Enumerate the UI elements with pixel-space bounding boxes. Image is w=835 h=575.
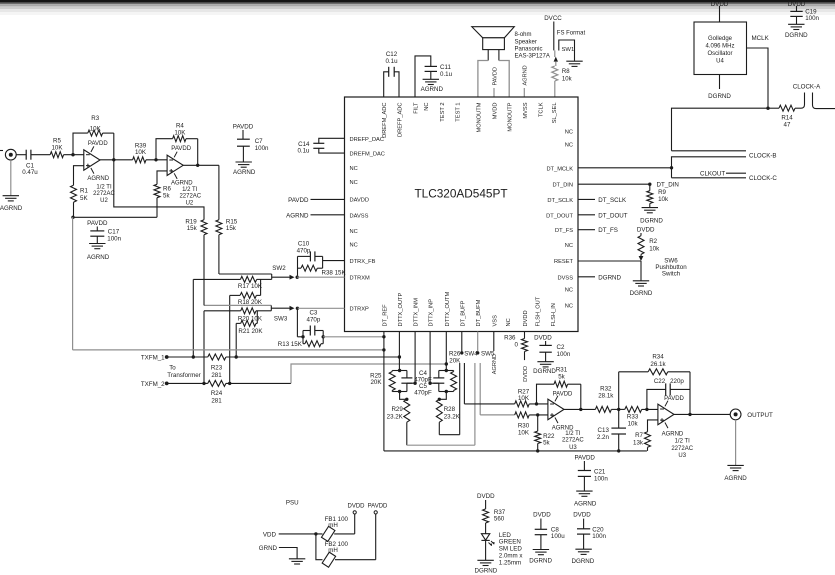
resistor R8 — [552, 66, 558, 81]
power label DVDD (oscillator, clipped by top bar) — [711, 1, 729, 8]
svg-text:U4: U4 — [716, 59, 724, 65]
wire reference line C — [73, 216, 157, 218]
svg-text:NC: NC — [565, 243, 573, 249]
svg-text:TEST 1: TEST 1 — [456, 103, 462, 122]
wire DVDD to C20 — [583, 519, 585, 529]
resistor R4 — [173, 136, 186, 142]
wire VSS stub — [493, 332, 495, 352]
wire DT_SCLK stub — [578, 198, 595, 200]
svg-text:AGRND: AGRND — [87, 254, 110, 261]
svg-text:CLOCK-A: CLOCK-A — [793, 83, 821, 90]
svg-text:23.2K: 23.2K — [444, 413, 461, 420]
node junction TXFM_2/R18 — [228, 382, 231, 385]
resistor R19 — [201, 220, 207, 235]
capacitor C2 — [539, 345, 551, 352]
svg-text:NC: NC — [350, 166, 358, 172]
capacitor C1 — [26, 150, 31, 160]
capacitor C13 — [611, 428, 626, 434]
svg-text:560: 560 — [494, 516, 505, 523]
label R39 10K — [135, 142, 147, 156]
wire DT_DIN — [578, 183, 649, 185]
wire C21 to ground — [583, 476, 585, 491]
label R26 20K — [449, 351, 461, 365]
resistor R9 — [647, 184, 653, 207]
ground (PSU) — [289, 559, 305, 564]
node junction R1 bottom — [71, 216, 74, 219]
wire C13 to rail — [618, 434, 620, 451]
label PAVDD (U3B) — [664, 396, 684, 402]
label R37 560 — [494, 509, 506, 523]
label R36 0 — [504, 334, 518, 348]
svg-text:10k: 10k — [628, 420, 639, 427]
wire U3B output — [674, 413, 730, 415]
svg-text:470p: 470p — [307, 316, 321, 323]
svg-text:MONOUTM: MONOUTM — [477, 102, 483, 132]
svg-text:0.1u: 0.1u — [297, 148, 310, 155]
svg-text:C7: C7 — [255, 138, 263, 145]
label R13 15K — [278, 341, 303, 348]
node junction combo C3 right — [322, 335, 325, 338]
IC U1 TLC320AD545PT body — [345, 97, 579, 332]
svg-text:DGRND: DGRND — [572, 558, 595, 565]
svg-text:DGRND: DGRND — [630, 290, 653, 297]
resistor R26 — [451, 371, 457, 392]
resistor R18 line — [230, 292, 261, 298]
switch SW1 frame — [559, 40, 575, 61]
svg-text:R2: R2 — [649, 238, 657, 245]
svg-text:DVDD: DVDD — [533, 511, 551, 518]
label R33 10k — [627, 414, 639, 428]
resistor R36 — [522, 339, 528, 352]
svg-text:U3: U3 — [678, 453, 686, 459]
svg-text:281: 281 — [211, 372, 222, 379]
node junction U3B inverting — [645, 408, 648, 411]
label DGRND (LED) — [475, 568, 498, 575]
ground DGRND (C8) — [533, 550, 549, 555]
wire R33 to U3B — [642, 408, 658, 410]
ground DGRND label (oscillator) — [708, 93, 731, 100]
op-amp U2B — [167, 152, 183, 179]
ground (SW1) — [566, 61, 582, 66]
label C13 2.2n — [597, 427, 610, 441]
combo C5/R26 bottom — [439, 391, 454, 393]
capacitor C13 lead — [618, 409, 620, 428]
svg-text:U3: U3 — [569, 445, 577, 451]
node junction combo C3 left — [301, 335, 304, 338]
svg-text:R34: R34 — [652, 354, 664, 361]
node junction TXFM_1/DTTX_OUTP — [398, 355, 401, 358]
capacitor C17 — [90, 231, 104, 236]
resistor R39 — [133, 157, 146, 163]
wire PAVDD to C21 — [583, 461, 585, 471]
svg-text:TLC320AD545PT: TLC320AD545PT — [414, 187, 507, 201]
node junction U3A output — [579, 408, 582, 411]
svg-text:DGRND: DGRND — [598, 274, 621, 281]
oscillator U4 box — [694, 22, 747, 75]
svg-text:TXFM_2: TXFM_2 — [141, 381, 165, 388]
terminal TXFM_2 — [165, 382, 169, 386]
label FS Format — [557, 30, 586, 36]
node junction U2B output — [196, 164, 199, 167]
net label DGRND (DVSS) — [598, 274, 621, 281]
label AGRND (input jack) — [0, 205, 23, 212]
resistor R17 line — [193, 276, 271, 282]
net label DT_SCLK — [598, 197, 627, 204]
label R20 10K — [238, 316, 263, 323]
resistor R2 — [638, 236, 644, 255]
wire DTRX_FB to combo — [323, 260, 345, 262]
svg-text:0.47u: 0.47u — [22, 169, 38, 176]
svg-text:4.096 MHz: 4.096 MHz — [705, 44, 734, 50]
svg-text:1/2 TI: 1/2 TI — [675, 439, 691, 445]
wire R31 feedback loop — [537, 384, 581, 409]
svg-text:C22: C22 — [654, 378, 666, 385]
svg-text:DAVSS: DAVSS — [350, 213, 369, 219]
svg-text:NC: NC — [506, 318, 512, 326]
label R25 20K — [370, 372, 382, 386]
svg-text:R7: R7 — [635, 432, 643, 439]
svg-text:NC: NC — [565, 288, 573, 294]
wire R3 feedback loop — [73, 133, 114, 160]
wire PAVDD to DAVDD — [311, 198, 345, 200]
svg-text:DT_DOUT: DT_DOUT — [598, 212, 627, 219]
wire R20 line to TXFM_2 — [203, 311, 205, 384]
svg-text:PAVDD: PAVDD — [87, 220, 108, 227]
wire DT_MCLK to clock connectors — [578, 167, 672, 169]
capacitor C12 — [389, 67, 395, 77]
svg-text:47: 47 — [784, 122, 791, 129]
svg-text:R23: R23 — [211, 364, 223, 371]
svg-text:DT_DIN: DT_DIN — [552, 183, 573, 189]
svg-text:AGRND: AGRND — [233, 169, 256, 176]
capacitor C10 — [310, 251, 315, 261]
wire U3B plus input — [648, 420, 658, 432]
power label DVDD (C20) — [573, 512, 591, 519]
capacitor C3 leads — [303, 330, 323, 332]
wire DVDD to R37 — [485, 500, 487, 509]
label SW3 — [274, 316, 288, 323]
label speaker description — [515, 32, 550, 60]
wire DT_REF pin down — [383, 332, 385, 451]
svg-text:DT_SCLK: DT_SCLK — [598, 197, 627, 204]
ground DGRND (LED) — [477, 560, 493, 565]
svg-text:R3: R3 — [91, 115, 99, 122]
wire DVDD to oscillator — [719, 6, 721, 22]
svg-text:R1: R1 — [80, 188, 88, 195]
svg-text:FLSH_IN: FLSH_IN — [551, 303, 557, 326]
svg-text:R36: R36 — [504, 334, 516, 341]
wire output jack to ground — [735, 420, 737, 466]
label R3 10K — [90, 115, 102, 132]
wire R17-R18 join — [260, 279, 262, 295]
svg-text:U2: U2 — [186, 201, 194, 207]
svg-text:R13 15K: R13 15K — [278, 341, 303, 348]
svg-text:15k: 15k — [187, 225, 198, 232]
IC U1 name label — [414, 187, 507, 201]
label R6 5k — [163, 185, 171, 199]
svg-text:CLKOUT: CLKOUT — [700, 171, 725, 178]
label FB2 100 mH — [325, 541, 349, 554]
wire LED to ground — [485, 540, 487, 560]
net label PAVDD (DAVDD) — [288, 197, 309, 204]
wire U2B plus input — [157, 171, 167, 184]
node junction R22 bottom — [536, 449, 539, 452]
label AGRND (U2A) — [87, 176, 109, 182]
svg-text:NC: NC — [350, 180, 358, 186]
node junction TXFM_2/DTTX_OUTM — [445, 362, 448, 365]
svg-text:AGRND: AGRND — [574, 501, 597, 508]
net label DT_DIN — [657, 182, 679, 189]
svg-text:DREFP_ADC: DREFP_ADC — [398, 103, 404, 137]
svg-text:100n: 100n — [594, 475, 608, 482]
svg-text:AGRND: AGRND — [724, 475, 747, 482]
wire R29 bottom line — [407, 422, 475, 445]
op-amp U2A — [84, 146, 100, 173]
svg-text:SW2: SW2 — [272, 265, 286, 272]
IC U1 right pin labels — [546, 130, 573, 310]
resistor R30 — [515, 412, 530, 418]
label C17 100n — [107, 229, 121, 243]
IC U1 bottom pin labels — [382, 291, 557, 326]
wire C13 junction up to R34 — [618, 372, 620, 410]
wire DTRXM to chip — [297, 276, 344, 278]
label TXFM_2 — [141, 381, 165, 388]
svg-text:VSS: VSS — [492, 315, 498, 327]
svg-text:PAVDD: PAVDD — [233, 123, 254, 130]
node junction SW5 top — [476, 351, 479, 354]
svg-text:2.2n: 2.2n — [597, 434, 610, 441]
label R28 23.2K — [444, 406, 461, 420]
label R29 23.2K — [387, 406, 404, 420]
wire DVDD to C2 — [545, 341, 547, 345]
capacitor C20 — [577, 529, 590, 534]
capacitor C12 wires — [384, 72, 399, 97]
svg-text:DTTX_INP: DTTX_INP — [429, 299, 435, 327]
net label AGRND (VSS pin) — [492, 354, 498, 374]
resistor R15 — [216, 220, 222, 235]
node junction DTTX_INP tap — [428, 382, 431, 385]
resistor R34 — [648, 369, 668, 375]
wire MCLK from oscillator — [747, 48, 769, 108]
wire jack to ground — [10, 160, 12, 196]
label C21 100n — [594, 469, 608, 483]
svg-text:Speaker: Speaker — [515, 40, 537, 46]
label C14 0.1u — [297, 141, 310, 155]
svg-text:100n: 100n — [557, 351, 571, 358]
svg-text:DTRX_FB: DTRX_FB — [350, 259, 376, 265]
wire R28 bottom line — [439, 422, 459, 435]
svg-text:28.1k: 28.1k — [598, 392, 614, 399]
ground AGRND (C21) — [576, 491, 592, 496]
svg-text:DT_BUFM: DT_BUFM — [476, 299, 482, 326]
svg-text:R21 20K: R21 20K — [238, 328, 263, 335]
wire MONOUTM to speaker — [478, 61, 488, 98]
label R15 15k — [226, 218, 238, 232]
wire combo1 to R29 — [400, 392, 407, 400]
svg-text:PAVDD: PAVDD — [574, 454, 595, 461]
label GRND — [259, 545, 278, 552]
label AGRND (C7) — [233, 169, 256, 176]
net label CLKOUT — [700, 171, 725, 178]
svg-text:Golledge: Golledge — [708, 36, 733, 42]
svg-text:10k: 10k — [658, 196, 669, 203]
svg-text:0: 0 — [515, 341, 519, 348]
svg-text:PAVDD: PAVDD — [492, 67, 498, 85]
svg-text:470p: 470p — [297, 248, 311, 255]
svg-text:10k: 10k — [562, 76, 573, 82]
wire DVDD pin to R36 — [524, 332, 526, 339]
resistor R25 — [389, 371, 395, 392]
svg-text:DVDD: DVDD — [637, 227, 655, 234]
svg-text:8-ohm: 8-ohm — [515, 32, 532, 38]
node junction U2B inverting input — [154, 158, 157, 161]
svg-text:DTRXM: DTRXM — [350, 276, 370, 282]
node junction R28 top — [438, 398, 441, 401]
net label PAVDD (MVDD pin) — [492, 67, 498, 85]
label C19 100n — [805, 8, 819, 22]
svg-text:DT_MCLK: DT_MCLK — [546, 166, 573, 172]
svg-text:EAS-3P127A: EAS-3P127A — [515, 54, 550, 60]
wire C20 to ground — [583, 534, 585, 549]
terminal DVDD (PSU) — [353, 511, 356, 514]
svg-text:AGRND: AGRND — [87, 176, 109, 182]
label R31 5k — [556, 367, 568, 381]
label C7 100n — [255, 138, 269, 152]
svg-text:0.1u: 0.1u — [440, 71, 453, 78]
svg-text:DGRND: DGRND — [475, 568, 498, 575]
capacitor C11 wire — [415, 56, 431, 97]
label TXFM_1 — [141, 355, 165, 362]
svg-text:R8: R8 — [562, 69, 570, 75]
svg-text:DVCC: DVCC — [544, 15, 562, 22]
node junction DT_MCLK — [670, 166, 673, 169]
label AGRND (U2B) — [171, 180, 193, 186]
label PAVDD (C7) — [233, 123, 254, 130]
svg-text:15k: 15k — [226, 225, 237, 232]
label PAVDD (U2A) — [88, 141, 108, 147]
label AGRND (U3B) — [662, 432, 684, 438]
wire DVDD to R2 — [640, 233, 642, 236]
wire C1 to R5 — [31, 154, 50, 156]
speaker LS1 body — [483, 38, 505, 50]
capacitor C22 — [666, 383, 671, 395]
capacitor C14 — [313, 143, 324, 148]
resistor R13 — [303, 341, 323, 347]
label R7 13k — [633, 432, 644, 446]
svg-text:PAVDD: PAVDD — [88, 141, 108, 147]
label R1 5K — [80, 188, 88, 202]
wire SW4 to R27 line — [463, 363, 465, 404]
node junction U3A non-inverting — [536, 413, 539, 416]
oscillator U4 text — [705, 36, 734, 65]
svg-text:100n: 100n — [805, 15, 819, 22]
wire DTTX_INM down — [414, 332, 416, 384]
wire SW5 to R29 line — [474, 363, 476, 445]
svg-text:PSU: PSU — [286, 499, 299, 506]
svg-text:MVSS: MVSS — [523, 102, 529, 118]
svg-text:Panasonic: Panasonic — [515, 47, 543, 53]
label C10 470p — [297, 241, 311, 255]
svg-text:FLSH_OUT: FLSH_OUT — [536, 296, 542, 326]
wire R19 branch to SW3 — [204, 304, 271, 306]
speaker LS1 horn — [472, 27, 515, 38]
label C11 0.1u — [440, 64, 453, 78]
node junction DT_DIN — [648, 183, 651, 186]
svg-text:13k: 13k — [633, 439, 644, 446]
node junction SW4 top — [460, 351, 463, 354]
wire VDD line — [279, 533, 323, 535]
svg-text:FILT: FILT — [414, 102, 420, 114]
svg-text:MONOUTP: MONOUTP — [508, 102, 514, 131]
label R4 10K — [174, 123, 186, 137]
svg-text:2272AC: 2272AC — [179, 194, 201, 200]
label U2B type — [179, 187, 201, 207]
capacitor C4 lead — [406, 371, 408, 378]
svg-text:DGRND: DGRND — [533, 368, 556, 375]
resistor R3 — [88, 130, 103, 136]
svg-text:470pF: 470pF — [414, 390, 432, 397]
capacitor C3 — [310, 326, 315, 336]
svg-text:DT_FS: DT_FS — [598, 227, 618, 234]
label U3A type — [562, 431, 584, 451]
resistor R37 — [483, 509, 489, 523]
capacitor C8 — [535, 529, 547, 534]
svg-text:DGRND: DGRND — [785, 32, 808, 39]
svg-text:AGRND: AGRND — [286, 212, 309, 219]
svg-text:DTRXP: DTRXP — [350, 307, 369, 313]
capacitor C10 leads — [298, 255, 323, 257]
label DGRND (SW6) — [630, 290, 653, 297]
svg-text:DT_DIN: DT_DIN — [657, 182, 679, 189]
wire R36 to DVDD label — [524, 352, 526, 361]
label C5 470pF — [414, 383, 432, 397]
capacitor C19 — [790, 11, 802, 16]
wire R30 to U3A — [529, 414, 548, 416]
svg-text:PAVDD: PAVDD — [553, 392, 573, 398]
svg-text:DVDD: DVDD — [523, 366, 529, 382]
wire MCLK junction to R14 — [768, 107, 779, 109]
label R9 10k — [658, 189, 669, 203]
resistor R7 — [645, 432, 651, 451]
power label PAVDD (PSU) — [368, 504, 388, 510]
power label DVDD (C2) — [534, 334, 552, 341]
net label DT_FS — [598, 227, 618, 234]
ground DGRND (C19) — [788, 24, 804, 29]
label DGRND (C20) — [572, 558, 595, 565]
node junction R32/C13 — [617, 408, 620, 411]
input stub at edge — [0, 150, 3, 152]
wire R27 to U3A — [529, 403, 548, 405]
wire DTTX_OUTP down — [398, 332, 400, 371]
svg-text:Switch: Switch — [662, 270, 681, 277]
wire SW3 contacts vertical — [270, 305, 272, 310]
label R21 20K — [238, 328, 263, 335]
resistor R1 — [71, 185, 77, 202]
label U3B type — [671, 439, 693, 459]
node junction U3A inverting — [535, 402, 538, 405]
svg-text:DTTX_INM: DTTX_INM — [414, 298, 420, 327]
label R22 5k — [543, 433, 555, 447]
svg-text:DGRND: DGRND — [640, 218, 663, 225]
connector CLOCK-B pin1 — [672, 150, 747, 152]
label R23 281 — [211, 364, 223, 379]
node junction U2A inverting input — [71, 153, 74, 156]
wire DTTX_OUTM down — [445, 332, 447, 371]
svg-text:R14: R14 — [781, 115, 793, 122]
wire combo2 to R28 — [439, 392, 446, 400]
label R17 10K — [238, 283, 263, 290]
svg-text:R17 10K: R17 10K — [238, 283, 263, 290]
